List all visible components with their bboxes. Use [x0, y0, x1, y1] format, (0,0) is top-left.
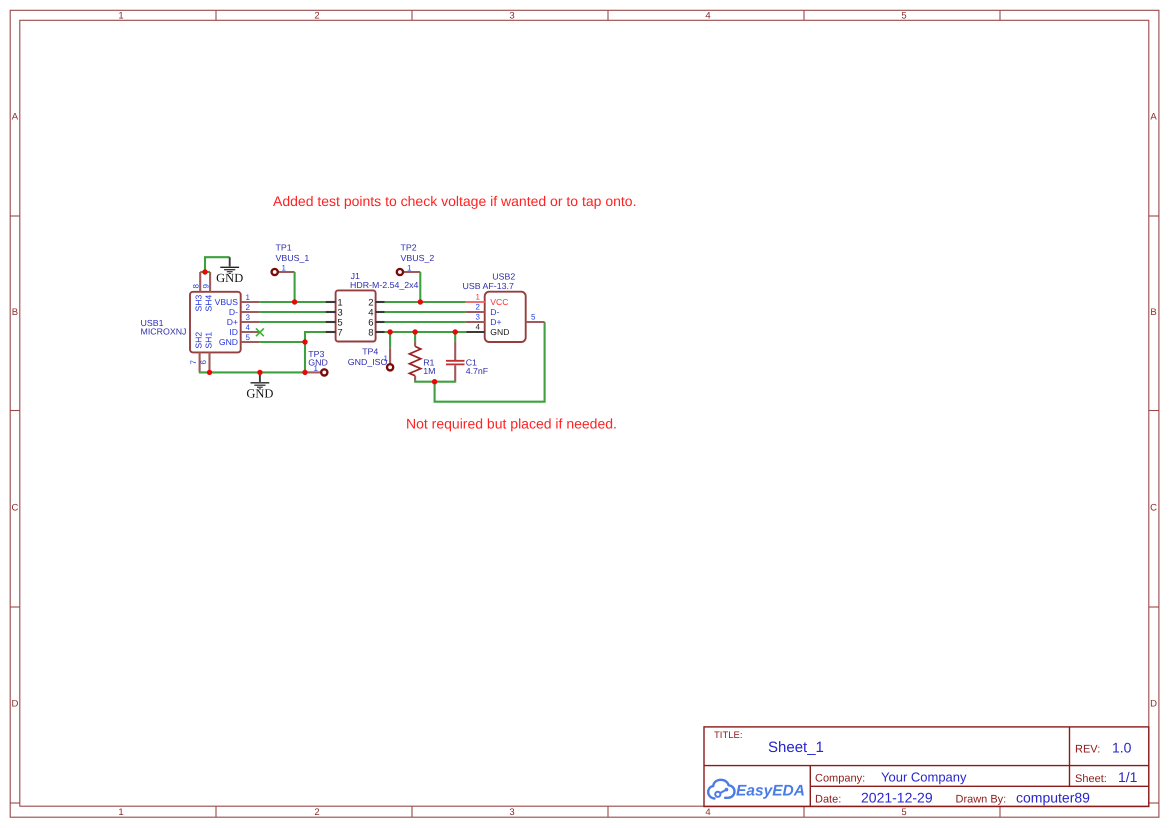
- svg-text:computer89: computer89: [1016, 789, 1090, 805]
- ground GND top: [216, 257, 243, 285]
- svg-text:ID: ID: [229, 327, 238, 337]
- svg-text:GND: GND: [246, 387, 273, 401]
- svg-text:VCC: VCC: [490, 297, 508, 307]
- junction TP1-VBUS: [292, 299, 297, 304]
- svg-text:SH1: SH1: [203, 332, 213, 349]
- title block: [704, 727, 1149, 807]
- svg-text:7: 7: [337, 328, 342, 339]
- wire row2 J1 to USB2: [385, 301, 466, 303]
- svg-text:8: 8: [192, 284, 201, 289]
- junction bottom GND symbol: [257, 370, 262, 375]
- svg-text:Your Company: Your Company: [881, 769, 967, 784]
- svg-text:1: 1: [118, 807, 123, 818]
- wire D- row: [260, 311, 326, 313]
- svg-text:B: B: [12, 307, 18, 318]
- svg-text:B: B: [1150, 307, 1156, 318]
- wire D+ row: [260, 321, 326, 323]
- svg-text:D-: D-: [229, 307, 238, 317]
- junction TP4 tap: [387, 329, 392, 334]
- svg-text:VBUS_1: VBUS_1: [276, 253, 310, 263]
- resistor R1: [409, 342, 435, 381]
- junction GND-J1p7: [302, 339, 307, 344]
- svg-text:1: 1: [407, 264, 412, 273]
- svg-text:TP4: TP4: [362, 347, 378, 357]
- wire C1 top: [454, 332, 456, 342]
- svg-text:TP2: TP2: [401, 243, 417, 253]
- svg-text:Sheet:: Sheet:: [1075, 773, 1107, 785]
- svg-text:2: 2: [246, 303, 251, 312]
- test point TP2: [397, 243, 435, 276]
- wire bottom GND run: [199, 371, 305, 373]
- svg-text:GND: GND: [219, 337, 238, 347]
- connector USB1: [141, 272, 260, 372]
- capacitor C1: [446, 342, 489, 382]
- header J1: [326, 271, 419, 341]
- wire USB1 pins 8-9 to GND: [200, 271, 210, 273]
- svg-text:7: 7: [189, 360, 198, 365]
- svg-text:VBUS: VBUS: [215, 297, 239, 307]
- svg-text:GND: GND: [216, 271, 243, 285]
- junction pin6: [207, 370, 212, 375]
- test point TP3: [305, 349, 328, 376]
- svg-text:3: 3: [246, 313, 251, 322]
- svg-text:GND: GND: [490, 327, 509, 337]
- svg-text:1: 1: [282, 264, 287, 273]
- svg-text:3: 3: [509, 807, 514, 818]
- svg-text:D-: D-: [490, 307, 499, 317]
- svg-text:D+: D+: [227, 317, 238, 327]
- junction bottom TP3: [302, 370, 307, 375]
- svg-text:1: 1: [118, 11, 123, 22]
- junction R1-C1 bottom link: [432, 379, 437, 384]
- wire VBUS row: [260, 301, 326, 303]
- svg-text:USB2: USB2: [492, 271, 515, 281]
- svg-text:TP1: TP1: [276, 243, 292, 253]
- svg-text:5: 5: [901, 807, 906, 818]
- svg-text:A: A: [1150, 112, 1157, 123]
- EasyEDA logo: [708, 780, 734, 799]
- svg-text:C: C: [11, 503, 18, 514]
- usb socket USB2: [463, 271, 545, 342]
- svg-text:2021-12-29: 2021-12-29: [861, 789, 933, 805]
- wire R1-C1 bottom link: [415, 380, 455, 383]
- svg-text:EasyEDA: EasyEDA: [736, 783, 805, 800]
- no-connect X on ID pin: [256, 328, 264, 336]
- svg-text:8: 8: [368, 328, 373, 339]
- svg-text:1: 1: [476, 293, 481, 302]
- svg-text:TITLE:: TITLE:: [714, 730, 743, 741]
- svg-text:5: 5: [531, 313, 536, 322]
- svg-text:6: 6: [199, 360, 208, 365]
- junction pins 8-9: [202, 269, 207, 274]
- svg-text:4: 4: [705, 807, 710, 818]
- svg-text:VBUS_2: VBUS_2: [401, 253, 435, 263]
- svg-text:GND: GND: [308, 358, 328, 368]
- svg-text:Date:: Date:: [815, 793, 841, 805]
- svg-text:5: 5: [901, 11, 906, 22]
- junction R1 tap: [412, 329, 417, 334]
- svg-text:SH3: SH3: [194, 295, 204, 312]
- wire TP2 drop: [419, 272, 421, 302]
- svg-text:Drawn By:: Drawn By:: [956, 793, 1007, 805]
- svg-text:1: 1: [246, 293, 251, 302]
- svg-text:Not required but placed if nee: Not required but placed if needed.: [406, 416, 617, 432]
- svg-text:A: A: [12, 112, 19, 123]
- svg-text:4: 4: [705, 11, 710, 22]
- svg-text:D+: D+: [490, 317, 501, 327]
- svg-text:Sheet_1: Sheet_1: [768, 739, 824, 756]
- junction TP2-VBUS: [418, 299, 423, 304]
- svg-text:SH2: SH2: [194, 332, 204, 349]
- junction C1 tap: [453, 329, 458, 334]
- svg-text:3: 3: [476, 313, 481, 322]
- svg-text:C: C: [1150, 503, 1157, 514]
- wire GND vertical: [304, 342, 306, 372]
- svg-text:2: 2: [314, 11, 319, 22]
- svg-text:2: 2: [314, 807, 319, 818]
- test point TP4: [348, 347, 393, 371]
- svg-text:D: D: [1150, 699, 1157, 710]
- svg-text:4: 4: [476, 323, 481, 332]
- svg-text:REV:: REV:: [1075, 744, 1100, 756]
- svg-text:4: 4: [246, 323, 251, 332]
- wire return loop to pin5: [435, 322, 545, 402]
- svg-text:MICROXNJ: MICROXNJ: [141, 327, 187, 337]
- svg-text:9: 9: [202, 284, 211, 289]
- svg-text:1/1: 1/1: [1118, 769, 1138, 785]
- svg-text:SH4: SH4: [203, 295, 213, 312]
- svg-text:4.7nF: 4.7nF: [466, 366, 489, 376]
- test point TP1: [272, 243, 310, 276]
- svg-text:HDR-M-2.54_2x4: HDR-M-2.54_2x4: [350, 280, 419, 290]
- svg-text:Added test points to check vol: Added test points to check voltage if wa…: [273, 193, 636, 209]
- wire TP4 drop: [389, 332, 391, 348]
- svg-text:2: 2: [476, 303, 481, 312]
- svg-text:5: 5: [246, 333, 251, 342]
- svg-text:Company:: Company:: [815, 772, 865, 784]
- svg-text:USB AF-13.7: USB AF-13.7: [463, 281, 514, 291]
- wire GND row: [260, 341, 305, 343]
- svg-text:GND_ISO: GND_ISO: [348, 357, 388, 367]
- svg-text:1M: 1M: [423, 366, 435, 376]
- svg-text:D: D: [11, 699, 18, 710]
- ground GND bottom: [246, 372, 273, 400]
- wire TP1 drop: [294, 272, 296, 302]
- svg-text:3: 3: [509, 11, 514, 22]
- wire row6 J1 to USB2: [385, 321, 466, 323]
- wire J1 pin7 link: [305, 332, 326, 342]
- wire R1 top: [414, 332, 416, 342]
- wire row4 J1 to USB2: [385, 311, 466, 313]
- svg-text:1.0: 1.0: [1112, 740, 1132, 756]
- wire row8 J1 to USB2: [385, 331, 467, 333]
